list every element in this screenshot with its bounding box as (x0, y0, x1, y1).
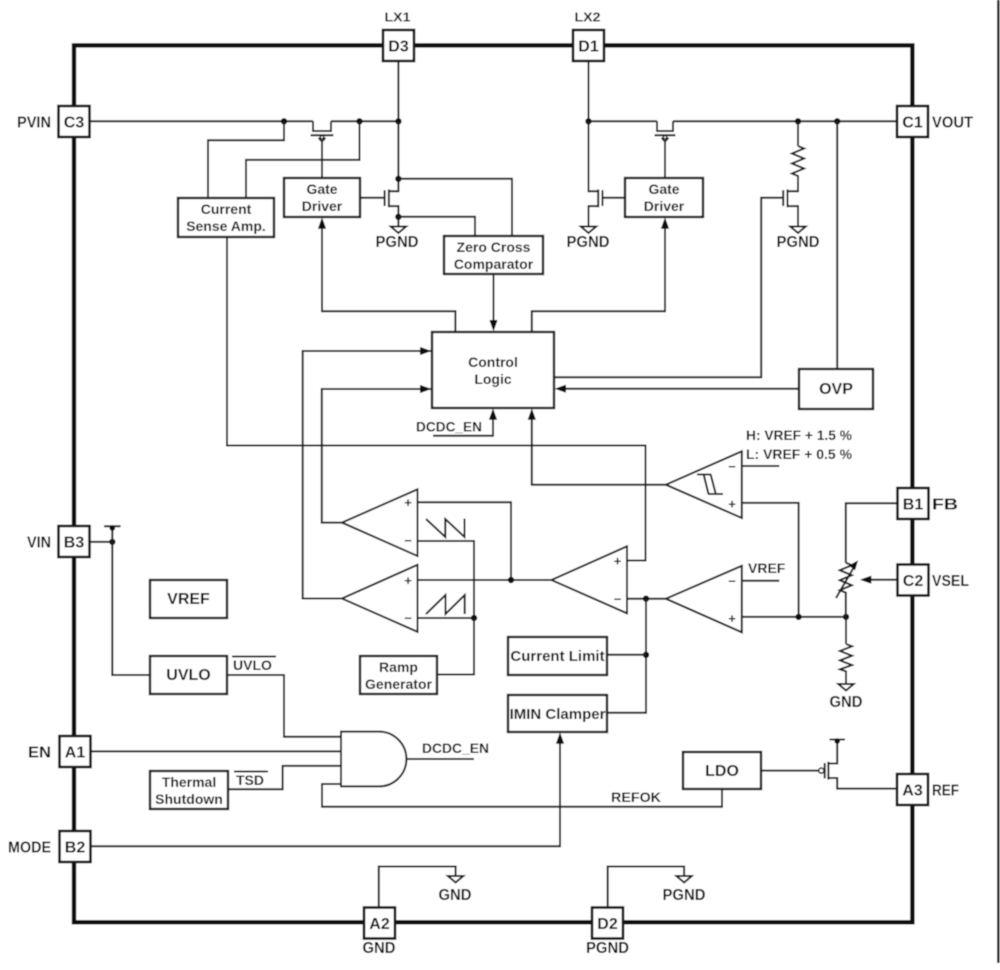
waveform sawtooth rising (comp2) (426, 595, 465, 614)
wire Control Logic to OVP FET gate (554, 198, 783, 378)
wire hysteresis - input stub (742, 465, 780, 467)
transistor Q6 LDO pass PMOS (761, 741, 897, 789)
wire comp1 + input from COMP node (418, 502, 512, 580)
supply tap above B3 (104, 525, 121, 542)
pin C3 PVIN (17, 106, 90, 137)
gate AND (DCDC enable) (341, 732, 406, 787)
svg-text:OVP: OVP (819, 381, 853, 398)
svg-text:PGND: PGND (663, 887, 706, 904)
block OVP (799, 369, 873, 409)
svg-text:VREF: VREF (167, 591, 210, 608)
svg-text:GND: GND (363, 940, 396, 957)
wire LX2 from D1 to switch node (588, 61, 590, 121)
wire AND output DCDC_EN (407, 758, 475, 760)
node VIN branch (109, 539, 115, 545)
svg-text:DCDC_EN: DCDC_EN (422, 740, 489, 756)
node LX2 (585, 118, 591, 124)
svg-text:C1: C1 (902, 114, 923, 131)
node VOUT divider tap (795, 118, 801, 124)
wire LX1 from D3 to switch node (397, 61, 399, 121)
svg-text:−: − (404, 533, 412, 548)
wire comp1 - input from ramp (418, 541, 475, 618)
wire current limit / imin to minus node (607, 599, 646, 713)
wire gate drive bus 1 (322, 227, 455, 332)
svg-text:Gate: Gate (306, 181, 337, 197)
block Current Limit (508, 637, 607, 675)
svg-text:H: VREF + 1.5 %: H: VREF + 1.5 % (746, 427, 853, 443)
wire hysteresis comparator output to Control Logic (528, 408, 666, 484)
svg-text:D3: D3 (388, 38, 409, 55)
svg-text:Zero Cross: Zero Cross (457, 239, 531, 255)
node PVIN sense left (281, 118, 287, 124)
wire comp2 + input / error amp output (418, 579, 552, 581)
svg-text:+: + (404, 573, 412, 588)
IC boundary (74, 45, 912, 922)
svg-text:PVIN: PVIN (17, 114, 51, 131)
ground PGND symbol inner (663, 876, 706, 904)
transistor Q3 high-side PMOS phase2 (655, 121, 676, 178)
arrowhead into Gate Driver 1 (318, 217, 326, 229)
wire VIN to UVLO (112, 542, 150, 675)
wire VREF - input stub (742, 580, 780, 582)
block IMIN Clamper (508, 695, 607, 732)
svg-text:PGND: PGND (376, 234, 419, 251)
pin D1 LX2 (573, 10, 604, 62)
svg-text:REFOK: REFOK (611, 789, 661, 805)
waveform sawtooth falling (comp1) (426, 519, 465, 538)
svg-text:+: + (614, 554, 622, 569)
svg-text:B2: B2 (65, 839, 86, 856)
svg-text:+: + (728, 611, 736, 626)
wire TSD to AND gate (228, 766, 341, 789)
wire OVP to VOUT rail (836, 121, 838, 369)
pin D2 PGND (586, 908, 629, 958)
comparator PWM comp2 (342, 565, 418, 632)
wire ZCC sense drain (398, 179, 512, 236)
comparator error amp (552, 546, 628, 613)
svg-text:GND: GND (439, 887, 472, 904)
node FB divider (843, 614, 849, 620)
ground GND below R3 (830, 684, 863, 711)
svg-text:FB: FB (932, 496, 958, 513)
pin C1 VOUT (897, 106, 973, 137)
block VREF (150, 580, 227, 618)
svg-text:EN: EN (28, 744, 51, 761)
block Thermal Shutdown (150, 771, 228, 809)
block Zero Cross Comparator (444, 236, 543, 274)
wire ZCC sense source (398, 217, 475, 236)
wire VREF comp + input / FB divider node (742, 616, 846, 618)
svg-text:L: VREF + 0.5 %: L: VREF + 0.5 % (746, 446, 853, 462)
svg-text:+: + (404, 495, 412, 510)
block Ramp Generator (360, 656, 437, 694)
svg-text:+: + (728, 497, 736, 512)
node ramp branch (471, 615, 477, 621)
node VOUT OVP tap (834, 118, 840, 124)
wire UVLO output to AND gate (227, 675, 341, 737)
wire GND tick from pin A2 (379, 867, 456, 908)
svg-text:D1: D1 (578, 38, 599, 55)
wire hysteresis + input to FB node (742, 503, 799, 617)
svg-text:LX2: LX2 (575, 10, 601, 25)
comparator VREF comp (666, 566, 742, 633)
svg-text:Current: Current (201, 201, 252, 217)
pin D3 LX1 (383, 10, 414, 62)
pin B3 VIN (27, 526, 90, 557)
svg-text:D2: D2 (597, 916, 618, 933)
pin B2 MODE (8, 831, 91, 862)
svg-text:REF: REF (932, 782, 959, 799)
svg-text:A3: A3 (902, 782, 923, 799)
node PVIN sense right (356, 118, 362, 124)
svg-text:IMIN Clamper: IMIN Clamper (510, 706, 606, 723)
svg-text:Ramp: Ramp (379, 659, 418, 675)
label TSD with overline (234, 772, 268, 789)
wire VOUT rail (589, 120, 658, 122)
svg-text:VOUT: VOUT (932, 114, 973, 131)
svg-text:UVLO: UVLO (233, 657, 272, 673)
block LDO (683, 752, 761, 789)
wire comp2 output to Control Logic (303, 351, 432, 599)
comparator hysteresis (666, 451, 742, 518)
svg-text:GND: GND (830, 694, 863, 711)
svg-text:UVLO: UVLO (166, 667, 210, 684)
wire MODE from pin B2 to IMIN Clamper (91, 732, 565, 846)
svg-text:Driver: Driver (302, 198, 343, 214)
transistor Q5 OVP discharge NMOS (783, 176, 798, 227)
svg-text:−: − (614, 592, 622, 607)
node Q2 source-ZCC (395, 214, 401, 220)
wire gate drive bus 2 (532, 227, 665, 332)
block Control Logic (432, 332, 554, 408)
svg-text:PGND: PGND (777, 234, 820, 251)
arrowhead into Gate Driver 2 (661, 217, 669, 229)
svg-text:PGND: PGND (586, 940, 629, 957)
hysteresis symbol (697, 475, 723, 495)
svg-text:B1: B1 (903, 496, 924, 513)
svg-text:−: − (728, 574, 736, 589)
node minus input branch (643, 596, 649, 602)
wire FB from pin B1 (846, 503, 898, 563)
node COMP branch (508, 577, 514, 583)
svg-text:Comparator: Comparator (454, 256, 534, 272)
pin B1 FB (898, 488, 959, 519)
pin A3 REF (897, 774, 959, 805)
block Gate Driver 2 (625, 178, 703, 217)
wire comp2 - input from ramp (418, 617, 475, 619)
svg-text:VSEL: VSEL (932, 573, 969, 590)
svg-text:PGND: PGND (567, 234, 610, 251)
wire PVIN rail (90, 120, 314, 122)
svg-text:VREF: VREF (748, 560, 786, 576)
node FB comp tap (795, 614, 801, 620)
ground PGND below Q2 (376, 217, 419, 251)
svg-text:Control: Control (468, 354, 518, 370)
transistor Q2 low-side NMOS phase1 (360, 121, 398, 217)
wire ZCC output arrow to Control Logic (489, 274, 497, 332)
svg-text:Current Limit: Current Limit (510, 648, 604, 665)
resistor R2 variable (VSEL) (836, 560, 858, 617)
ground GND symbol inner (439, 876, 472, 904)
svg-text:−: − (728, 459, 736, 474)
svg-text:−: − (404, 611, 412, 626)
wire comp1 output to Control Logic (322, 389, 432, 523)
wire PGND tick from pin D2 (608, 867, 684, 908)
svg-text:C2: C2 (903, 573, 924, 590)
svg-text:TSD: TSD (236, 772, 264, 788)
wire EN from pin A1 to AND gate (91, 750, 342, 752)
svg-text:Generator: Generator (365, 676, 432, 692)
wire CSA sense right (246, 121, 360, 198)
resistor R3 FB lower (840, 617, 852, 684)
wire CSA output to error amp (227, 237, 646, 561)
svg-text:MODE: MODE (8, 839, 51, 856)
wire error amp + input (627, 446, 646, 561)
wire current limit output (607, 654, 646, 656)
node Q2 drain-ZCC (395, 176, 401, 182)
pin A1 EN (28, 736, 91, 767)
wire DCDC_EN into Control Logic (416, 408, 497, 435)
svg-text:B3: B3 (64, 534, 85, 551)
ground PGND below Q4 (567, 227, 610, 252)
wire REFOK from LDO to AND gate (322, 784, 722, 807)
svg-text:Gate: Gate (648, 181, 679, 197)
ground PGND below Q5 (777, 227, 820, 252)
wire VIN from pin B3 (90, 541, 113, 543)
block UVLO (150, 656, 227, 694)
svg-text:A2: A2 (369, 916, 390, 933)
svg-text:DCDC_EN: DCDC_EN (416, 419, 482, 435)
transistor Q4 low-side NMOS phase2 (589, 121, 626, 226)
wire error amp - input / VREF comp output (627, 598, 666, 600)
svg-text:Thermal: Thermal (162, 774, 216, 790)
supply tap above Q6 (830, 738, 846, 744)
wire OVP output to Control Logic (555, 385, 800, 393)
arrowhead comp2 into Control Logic (420, 347, 432, 355)
node LX1 (395, 118, 401, 124)
svg-text:Sense Amp.: Sense Amp. (186, 218, 266, 234)
svg-text:Driver: Driver (644, 198, 685, 214)
comparator PWM comp1 (342, 489, 418, 556)
svg-text:Shutdown: Shutdown (155, 791, 223, 807)
wire VSEL arrow from pin C2 (860, 576, 898, 584)
wire ramp generator to comparators (437, 618, 474, 675)
arrowhead comp1 into Control Logic (420, 385, 432, 393)
svg-text:VIN: VIN (27, 534, 51, 551)
block Current Sense Amp (178, 198, 274, 237)
svg-text:Logic: Logic (474, 371, 512, 387)
node current limit tap (643, 652, 649, 658)
pin C2 VSEL (898, 565, 970, 596)
svg-text:A1: A1 (65, 744, 86, 761)
svg-text:LX1: LX1 (385, 10, 411, 25)
svg-text:LDO: LDO (705, 763, 739, 780)
block Gate Driver 1 (284, 178, 360, 217)
resistor R1 VOUT bleed (792, 121, 804, 191)
svg-text:C3: C3 (64, 114, 85, 131)
label UVLO with overline (232, 657, 276, 674)
wire CSA sense left (208, 121, 284, 198)
transistor Q1 high-side PMOS phase1 (311, 121, 334, 178)
pin A2 GND (363, 908, 396, 958)
